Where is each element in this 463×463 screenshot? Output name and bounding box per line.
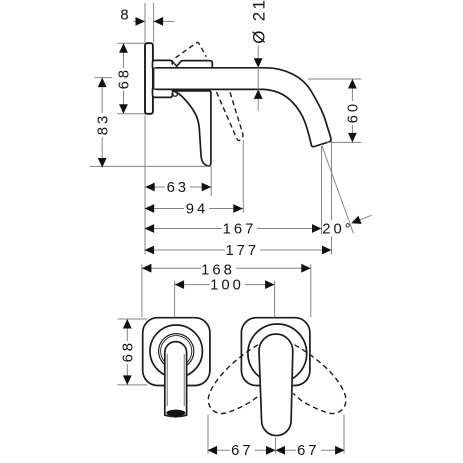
167 dim line xyxy=(145,228,322,230)
168 arrows xyxy=(142,264,152,273)
svg-text:168: 168 xyxy=(201,262,235,278)
svg-text:63: 63 xyxy=(167,180,189,196)
60 arrows xyxy=(348,79,357,89)
svg-text:94: 94 xyxy=(186,202,208,218)
cartridge cover (handle base) xyxy=(177,61,213,68)
100 arrows xyxy=(175,280,185,289)
text 168 xyxy=(201,262,236,276)
right outer circle xyxy=(248,324,307,383)
lower notch xyxy=(173,89,178,96)
167 arrows xyxy=(145,224,155,233)
handle (front view) covers petal dashes xyxy=(259,334,293,436)
spout body xyxy=(154,68,331,147)
text 67 right xyxy=(296,443,321,457)
svg-text:100: 100 xyxy=(210,278,244,294)
svg-text:8: 8 xyxy=(120,8,131,24)
text 63 xyxy=(165,180,190,194)
spout rosette (upper escutcheon cross-section) xyxy=(153,60,173,67)
20deg leader xyxy=(353,215,371,222)
pipe wall highlight lines xyxy=(167,354,184,406)
outlet center extension xyxy=(321,146,323,234)
68 top-view ticks xyxy=(117,43,145,114)
83 dim line xyxy=(101,78,103,168)
100 extensions xyxy=(175,281,275,317)
8 dim extension lines xyxy=(145,3,154,43)
svg-text:68: 68 xyxy=(121,340,137,362)
left outer circle xyxy=(150,325,202,377)
177 arrows xyxy=(145,246,155,255)
notch between rosette and cartridge xyxy=(172,61,176,66)
63 dim line xyxy=(145,186,211,188)
8 dim line xyxy=(134,20,175,22)
dashed open lever (top) xyxy=(176,42,207,57)
right petal xyxy=(293,345,346,414)
dashed swing petals xyxy=(208,345,346,414)
83 ticks xyxy=(90,78,212,167)
60 dim line xyxy=(351,79,353,142)
handle rosette lower xyxy=(153,89,173,97)
wall plate xyxy=(145,43,153,114)
8 dim arrows xyxy=(136,17,146,26)
67 extensions xyxy=(208,415,344,454)
spout tip extension xyxy=(331,141,333,255)
text 83 rotated xyxy=(95,113,110,137)
94 dim line xyxy=(145,208,243,210)
left petal xyxy=(208,345,259,414)
svg-text:60: 60 xyxy=(346,101,362,123)
svg-text:68: 68 xyxy=(117,67,133,89)
60 ticks xyxy=(308,79,362,142)
68 bottom ticks xyxy=(118,319,148,385)
63 arrows xyxy=(145,183,155,192)
dia21 dim line xyxy=(257,46,259,112)
68 top arrows xyxy=(119,43,128,53)
left spout pipe front view (covers circles) xyxy=(165,342,187,417)
68 bottom arrows xyxy=(123,319,132,329)
left escutcheon plate xyxy=(143,318,210,386)
67 arrows xyxy=(208,446,218,455)
100 dim line xyxy=(175,284,275,286)
dia21 arrows xyxy=(254,58,263,68)
text 100 xyxy=(210,278,245,292)
svg-text:20°: 20° xyxy=(322,222,353,238)
svg-text:67: 67 xyxy=(231,443,253,459)
text 20deg xyxy=(326,220,349,237)
text 60 rotated xyxy=(345,101,360,125)
dashed open lever (lower, tilted handle) xyxy=(217,91,243,140)
177 dim line xyxy=(145,249,332,251)
83 arrows xyxy=(98,78,107,88)
svg-text:177: 177 xyxy=(225,243,259,259)
svg-text:83: 83 xyxy=(96,113,112,135)
svg-text:67: 67 xyxy=(297,443,319,459)
text 67 left xyxy=(230,443,255,457)
168 dim line xyxy=(142,267,311,269)
text dia 21 rotated xyxy=(250,0,269,44)
68 top-view dim line xyxy=(123,43,125,114)
wall extension line xyxy=(144,115,146,255)
68 bottom dim line xyxy=(126,319,128,385)
text 167 xyxy=(222,222,257,236)
handle lever (closed) xyxy=(172,91,211,166)
left ring xyxy=(159,334,194,369)
text 94 xyxy=(184,202,209,216)
text 177 xyxy=(225,243,260,257)
right escutcheon plate xyxy=(241,318,310,386)
text 68 top rotated xyxy=(116,68,131,91)
svg-text:167: 167 xyxy=(223,222,257,238)
text 68 bottom rotated xyxy=(120,341,135,364)
168 extensions xyxy=(142,265,311,318)
open lever tip extension xyxy=(242,140,244,213)
94 arrows xyxy=(145,204,155,213)
20 degree slanted line xyxy=(322,146,354,234)
20deg leader arrow xyxy=(351,216,361,224)
svg-text:Ø 21: Ø 21 xyxy=(250,0,269,44)
handle tip extension xyxy=(210,166,212,196)
67 dim line xyxy=(208,449,345,451)
